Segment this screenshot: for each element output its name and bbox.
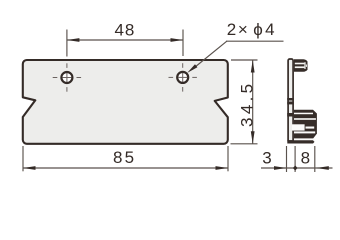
side view bar S1 (288, 59, 293, 141)
label 2xphi4 arrow (187, 64, 197, 73)
svg-text:3: 3 (262, 149, 271, 168)
knob slot 2 (295, 66, 305, 68)
bar band 1 (287, 98, 294, 101)
label 2xphi4 leader shoulder (226, 40, 284, 42)
svg-text:8: 8 (301, 149, 310, 168)
knob slot 1 (295, 63, 305, 65)
plate body P1 (front view) (23, 60, 228, 144)
dim 34.5 line (252, 60, 254, 144)
svg-text:85: 85 (113, 148, 136, 167)
side view top knob (294, 59, 308, 72)
label 2xphi4 leader diagonal (192, 41, 227, 69)
dim 48 arrows (67, 38, 80, 42)
dim 34.5 extension lines (231, 60, 258, 144)
side view bottom foot (287, 140, 314, 143)
block slot 1 (294, 113, 313, 115)
dim 8 dot (293, 165, 298, 170)
hole H1 crosshair (53, 63, 81, 91)
dim 85 line (23, 167, 228, 169)
block slot 4 (294, 131, 315, 133)
dim 34.5 arrows (251, 60, 255, 73)
dim 85 arrows (23, 166, 36, 170)
side view clamp block (294, 110, 317, 139)
dim 8 arrow (316, 166, 329, 170)
svg-text:48: 48 (114, 21, 135, 40)
bar band 2 (287, 102, 294, 105)
dim 3/8 line (261, 167, 333, 169)
dim 48 line (67, 39, 183, 41)
knob nub highlight (306, 65, 307, 67)
hole H1 (61, 72, 72, 83)
block notch (292, 124, 305, 130)
dim 3/8 extension lines (287, 146, 315, 172)
hole H2 crosshair (169, 63, 197, 91)
svg-text:34.5: 34.5 (237, 81, 256, 127)
block slot 2 (294, 118, 316, 120)
dim 3 arrow (274, 166, 287, 170)
dim 48 extension lines (67, 30, 183, 57)
dim 85 extension lines (23, 146, 228, 171)
bar band 3 (287, 113, 294, 117)
svg-text:2×ϕ4: 2×ϕ4 (227, 20, 277, 39)
block slot 3 (306, 127, 315, 129)
knob nub separator (304, 62, 305, 69)
block slot 5 (294, 139, 315, 141)
hole H2 (177, 72, 188, 83)
